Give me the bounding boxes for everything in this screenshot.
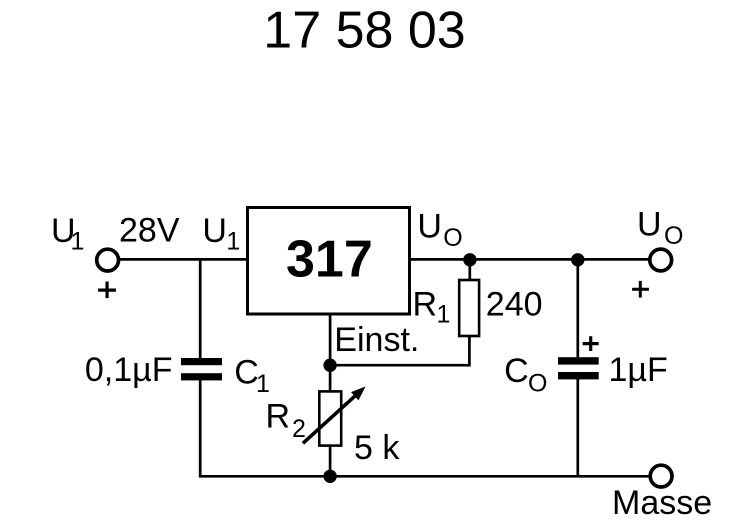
wire: CO top branch — [576, 258, 579, 359]
svg-text:R: R — [413, 285, 438, 323]
svg-text:1: 1 — [226, 228, 240, 256]
capacitor CO plate top — [558, 357, 599, 364]
svg-text:O: O — [443, 224, 462, 252]
svg-text:28V: 28V — [119, 212, 180, 250]
terminal Masse ground — [650, 465, 672, 487]
wire: C1 top branch — [199, 258, 202, 359]
plus polarity at output — [632, 288, 649, 291]
junction node: adjust — [323, 359, 336, 372]
plus polarity at input — [98, 289, 116, 292]
regulator U1 box 317 — [248, 208, 410, 315]
svg-text:1: 1 — [71, 228, 85, 256]
junction node: output to R1 — [463, 253, 476, 266]
svg-text:U: U — [417, 208, 442, 246]
terminal U1 input — [97, 249, 119, 271]
wire: C1 bottom branch — [199, 380, 202, 477]
capacitor C1 plate top — [181, 358, 222, 365]
wire: regulator output to output terminal — [409, 258, 661, 261]
wire: adjust pin stem from regulator — [329, 314, 332, 365]
svg-text:1: 1 — [256, 370, 270, 398]
wire: R1 top lead from output node — [468, 258, 471, 280]
svg-text:Masse: Masse — [612, 484, 712, 521]
svg-text:1µF: 1µF — [609, 351, 668, 389]
wire: R2 bottom lead — [329, 445, 332, 476]
terminal UO output — [650, 249, 672, 271]
svg-text:317: 317 — [286, 230, 373, 288]
wire: input terminal to regulator input — [108, 258, 249, 261]
svg-text:R: R — [266, 398, 291, 436]
wire: R2 top lead — [329, 364, 332, 392]
wire: R1 bottom lead — [468, 336, 471, 367]
potentiometer R2 arrow head — [351, 387, 366, 401]
svg-text:U: U — [202, 212, 227, 250]
capacitor CO plate bottom — [558, 372, 599, 379]
plus polarity at CO — [583, 342, 599, 345]
svg-text:17 58 03: 17 58 03 — [263, 2, 465, 60]
svg-text:Einst.: Einst. — [334, 321, 419, 359]
resistor R1 body — [459, 280, 479, 336]
potentiometer R2 body — [319, 391, 341, 445]
svg-text:2: 2 — [292, 415, 306, 443]
svg-text:O: O — [664, 222, 683, 250]
svg-text:C: C — [504, 352, 529, 390]
svg-text:O: O — [528, 370, 547, 398]
junction node: output to CO — [571, 253, 584, 266]
svg-text:0,1µF: 0,1µF — [85, 351, 173, 389]
wire: ground bottom rail — [199, 475, 661, 478]
svg-text:1: 1 — [437, 300, 451, 328]
svg-text:U: U — [637, 206, 662, 244]
potentiometer R2 arrow shaft — [303, 395, 356, 443]
capacitor C1 plate bottom — [181, 373, 222, 380]
svg-text:240: 240 — [486, 286, 543, 324]
wire: CO bottom branch — [576, 379, 579, 478]
wire: adjust node horizontal to R1 — [330, 364, 469, 367]
junction node: R2 to ground rail — [323, 470, 336, 483]
svg-text:5 k: 5 k — [354, 429, 400, 467]
